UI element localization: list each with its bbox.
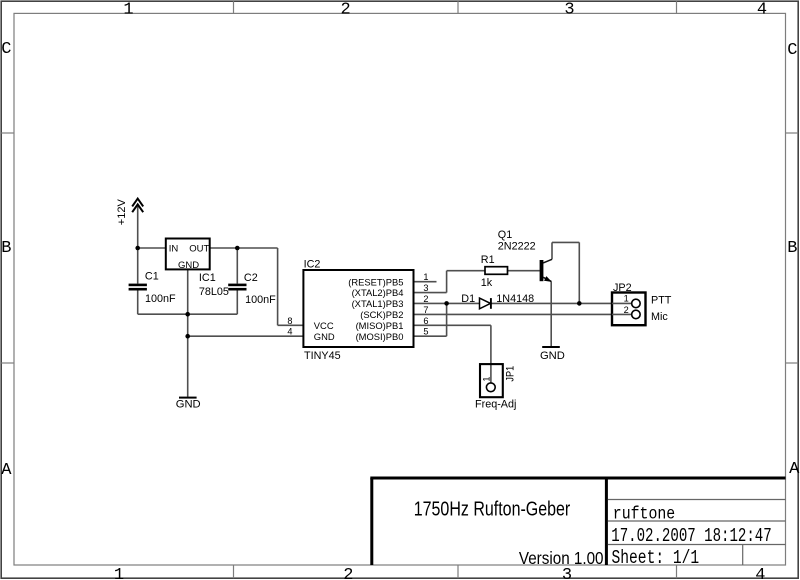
svg-text:3: 3 xyxy=(564,0,574,19)
svg-text:1: 1 xyxy=(624,294,629,304)
svg-text:2: 2 xyxy=(423,294,428,304)
svg-text:VCC: VCC xyxy=(314,320,334,331)
svg-text:PTT: PTT xyxy=(651,294,672,306)
svg-text:2: 2 xyxy=(343,566,353,580)
svg-text:Sheet: 1/1: Sheet: 1/1 xyxy=(612,548,700,569)
svg-text:OUT: OUT xyxy=(189,243,209,254)
svg-text:1: 1 xyxy=(482,376,492,381)
svg-text:17.02.2007 18:12:47: 17.02.2007 18:12:47 xyxy=(611,526,771,548)
svg-text:3: 3 xyxy=(423,283,428,293)
svg-text:6: 6 xyxy=(423,316,428,326)
svg-text:2N2222: 2N2222 xyxy=(498,240,536,252)
svg-text:(SCK)PB2: (SCK)PB2 xyxy=(360,309,403,320)
svg-text:2: 2 xyxy=(340,0,350,19)
svg-text:4: 4 xyxy=(755,566,765,580)
svg-text:+12V: +12V xyxy=(116,199,128,226)
svg-text:Mic: Mic xyxy=(651,311,668,323)
svg-text:TINY45: TINY45 xyxy=(304,350,341,362)
svg-text:A: A xyxy=(789,460,800,479)
svg-text:7: 7 xyxy=(423,305,428,315)
svg-text:5: 5 xyxy=(423,327,428,337)
svg-text:1: 1 xyxy=(423,272,428,282)
svg-text:JP2: JP2 xyxy=(613,282,632,294)
svg-text:4: 4 xyxy=(757,0,767,19)
svg-text:C2: C2 xyxy=(244,272,258,284)
svg-text:GND: GND xyxy=(314,331,335,342)
svg-text:78L05: 78L05 xyxy=(199,286,229,298)
svg-text:Version 1.00: Version 1.00 xyxy=(519,549,604,568)
svg-text:GND: GND xyxy=(176,399,201,411)
svg-text:8: 8 xyxy=(287,316,292,326)
svg-text:(XTAL1)PB3: (XTAL1)PB3 xyxy=(352,298,404,309)
svg-text:Freq-Adj: Freq-Adj xyxy=(475,399,516,411)
svg-text:Q1: Q1 xyxy=(498,229,512,241)
svg-text:JP1: JP1 xyxy=(505,365,517,381)
svg-text:1750Hz Rufton-Geber: 1750Hz Rufton-Geber xyxy=(414,498,571,520)
svg-text:ruftone: ruftone xyxy=(613,503,675,524)
svg-text:C: C xyxy=(1,40,11,59)
svg-text:GND: GND xyxy=(178,260,199,271)
svg-text:1: 1 xyxy=(123,0,133,19)
svg-text:1: 1 xyxy=(114,566,124,580)
svg-text:100nF: 100nF xyxy=(145,293,176,305)
svg-text:C: C xyxy=(787,41,797,60)
svg-text:2: 2 xyxy=(624,305,629,315)
svg-text:IC2: IC2 xyxy=(304,259,321,271)
svg-text:(XTAL2)PB4: (XTAL2)PB4 xyxy=(352,287,404,298)
svg-text:4: 4 xyxy=(287,327,292,337)
svg-text:1N4148: 1N4148 xyxy=(496,293,534,305)
svg-text:GND: GND xyxy=(540,350,565,362)
svg-text:C1: C1 xyxy=(145,271,159,283)
svg-text:1k: 1k xyxy=(481,277,493,289)
svg-text:B: B xyxy=(787,239,797,258)
svg-text:B: B xyxy=(1,239,11,258)
svg-text:100nF: 100nF xyxy=(245,294,276,306)
svg-text:D1: D1 xyxy=(461,293,475,305)
svg-text:A: A xyxy=(1,461,12,480)
svg-text:(MOSI)PB0: (MOSI)PB0 xyxy=(356,331,404,342)
svg-text:R1: R1 xyxy=(481,254,495,266)
svg-text:(RESET)PB5: (RESET)PB5 xyxy=(348,276,403,287)
svg-text:IN: IN xyxy=(169,243,179,254)
svg-text:(MISO)PB1: (MISO)PB1 xyxy=(356,320,404,331)
svg-text:IC1: IC1 xyxy=(199,272,216,284)
